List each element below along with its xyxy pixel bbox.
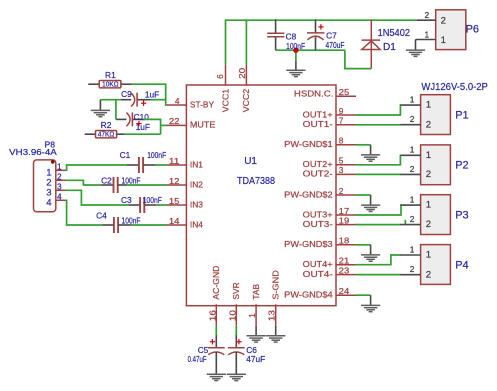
svg-text:C3: C3 [121, 195, 132, 205]
wire pin10 to C6 [235, 326, 237, 336]
svg-text:47KΩ: 47KΩ [98, 130, 115, 139]
ground at P6 pin1 [406, 50, 425, 56]
capacitor C10 (polarized) [116, 118, 126, 120]
P4 pin 2 stub [400, 274, 420, 276]
wire R1 to pin 4 [132, 84, 167, 105]
svg-text:OUT2-: OUT2- [303, 169, 333, 179]
svg-text:19: 19 [339, 215, 350, 225]
svg-text:1: 1 [426, 150, 431, 161]
svg-text:VCC2: VCC2 [241, 88, 251, 112]
U1 pin 16 AC-GND stub [215, 304, 217, 325]
wire P8.4 to C4 [66, 200, 103, 225]
svg-text:2: 2 [426, 269, 431, 280]
svg-text:IN4: IN4 [190, 219, 203, 229]
svg-text:4: 4 [175, 96, 180, 106]
ground stem pin2 [370, 195, 372, 205]
svg-text:100nF: 100nF [143, 195, 162, 205]
svg-text:1uF: 1uF [145, 90, 159, 100]
svg-text:3: 3 [57, 182, 62, 192]
ground at PW-GND$4 [361, 305, 380, 311]
U1 pin 15 IN3 stub [166, 204, 187, 206]
ground under C6 [227, 374, 246, 380]
P8 pin 3 stub [56, 189, 66, 191]
U1 pin 13 S-GND stub [275, 304, 277, 325]
wire to pin 22 [161, 124, 167, 126]
svg-text:14: 14 [169, 216, 180, 226]
svg-text:OUT3-: OUT3- [303, 219, 333, 229]
svg-text:13: 13 [267, 310, 277, 321]
svg-text:2: 2 [410, 164, 415, 174]
P1 pin 1 stub [400, 104, 420, 106]
C5 plus mark [210, 339, 215, 344]
svg-text:PW-GND$1: PW-GND$1 [284, 139, 333, 149]
svg-text:2: 2 [426, 169, 431, 180]
svg-text:2: 2 [441, 15, 446, 26]
wire down jog [344, 50, 346, 68]
U1 pin 25 HSDN.C. stub [336, 95, 356, 97]
U1 pin 7 OUT1- stub [336, 124, 356, 126]
svg-text:C8: C8 [286, 32, 297, 42]
svg-text:2: 2 [425, 10, 430, 20]
P6 pin 1 stub [416, 39, 436, 41]
U1 pin 4 ST-BY stub [166, 104, 187, 106]
svg-text:100nF: 100nF [286, 41, 305, 51]
svg-text:15: 15 [169, 196, 180, 206]
svg-text:2: 2 [426, 219, 431, 230]
P8 pin 1 stub [56, 169, 66, 171]
wire riser C10/R2 [160, 119, 162, 135]
wire to D1 anode [344, 68, 371, 70]
svg-text:22: 22 [169, 116, 180, 126]
ground at PW-GND$3 [361, 255, 380, 261]
svg-text:OUT1+: OUT1+ [303, 109, 333, 119]
svg-text:AC-GND: AC-GND [211, 266, 221, 300]
svg-text:2: 2 [410, 264, 415, 274]
ground near C9 [91, 110, 110, 116]
wire C4 to pin 14 [132, 224, 167, 226]
svg-text:1: 1 [57, 162, 62, 172]
svg-text:IN1: IN1 [190, 159, 203, 169]
U1 pin 14 IN4 stub [166, 224, 187, 226]
svg-text:1: 1 [426, 200, 431, 211]
P6 ground stem [415, 40, 417, 51]
svg-text:P1: P1 [455, 110, 468, 122]
capacitor C9 (polarized) [120, 99, 131, 101]
svg-text:OUT2+: OUT2+ [303, 159, 333, 169]
svg-text:2: 2 [410, 114, 415, 124]
U1 pin 21 OUT4+ stub [336, 264, 356, 266]
connector P4 [421, 245, 451, 285]
svg-text:1N5402: 1N5402 [378, 28, 411, 39]
ground at PW-GND$2 [361, 205, 380, 211]
P2 pin 1 stub [400, 154, 420, 156]
wire C9 to ST-BY riser [151, 99, 167, 101]
wire pin20 riser [245, 19, 247, 64]
svg-text:OUT4+: OUT4+ [303, 259, 333, 269]
wire pin19 to P3.2 [355, 224, 401, 226]
capacitor C5 (polarized) [215, 335, 217, 348]
ground stem pin24 [370, 295, 372, 305]
wire pin24 to ground [355, 294, 370, 296]
op-amp U1 TDA7388 IC body [186, 85, 336, 306]
svg-text:100nF: 100nF [122, 215, 141, 225]
svg-text:1: 1 [426, 100, 431, 111]
svg-text:12: 12 [169, 176, 180, 186]
wire P8.3 to C3 [66, 190, 129, 205]
svg-text:OUT3+: OUT3+ [303, 209, 333, 219]
C9 plus mark [141, 101, 146, 106]
svg-text:P2: P2 [455, 160, 468, 172]
wire tick at P3.2 [404, 220, 406, 225]
U1 pin 9 OUT1+ stub [336, 114, 356, 116]
wire pin18 to ground [355, 244, 370, 246]
resistor R1 10K [88, 83, 99, 85]
svg-text:23: 23 [339, 265, 350, 275]
P3 pin 1 stub [400, 204, 420, 206]
capacitor C4 100nF [102, 224, 114, 226]
connector P2 [421, 145, 451, 185]
capacitor C6 (polarized) [235, 335, 237, 348]
P8 pin 4 stub [56, 199, 66, 201]
svg-text:VH3.96-4A: VH3.96-4A [9, 147, 57, 157]
P4 pin 1 stub [400, 254, 420, 256]
wire pin9 to P1.1 [355, 105, 401, 115]
junction dot [293, 48, 298, 53]
wire C2 to pin 12 [127, 184, 166, 186]
svg-text:SVR: SVR [231, 282, 241, 299]
wire pin6 riser [225, 19, 227, 64]
C6 plus mark [236, 339, 241, 344]
ground stem S-GND [275, 326, 277, 336]
U1 pin 20 VCC2 stub [245, 65, 247, 86]
svg-text:P6: P6 [466, 24, 479, 36]
U1 pin 11 IN1 stub [166, 164, 187, 166]
diode D1 1N5402 [370, 19, 372, 68]
svg-text:20: 20 [237, 68, 247, 79]
svg-text:8: 8 [339, 136, 344, 146]
wire pin8 to ground [355, 144, 370, 146]
svg-text:U1: U1 [244, 156, 257, 167]
resistor R2 47K [85, 133, 96, 135]
svg-text:WJ126V-5.0-2P: WJ126V-5.0-2P [421, 82, 488, 93]
svg-text:C10: C10 [134, 112, 150, 122]
svg-text:10: 10 [227, 310, 237, 321]
svg-text:C9: C9 [121, 89, 132, 99]
wire P8.2 to C2 [66, 180, 102, 185]
svg-text:R1: R1 [105, 70, 116, 80]
svg-text:IN3: IN3 [190, 199, 203, 209]
svg-text:1: 1 [426, 250, 431, 261]
connector P6 [436, 10, 466, 50]
svg-text:MUTE: MUTE [190, 120, 216, 130]
U1 pin 18 PW-GND$3 stub [336, 244, 356, 246]
svg-text:2: 2 [57, 172, 62, 182]
U1 pin 23 OUT4- stub [336, 274, 356, 276]
svg-text:HSDN.C.: HSDN.C. [294, 88, 334, 98]
connector P3 [421, 195, 451, 235]
U1 pin 22 MUTE stub [166, 124, 187, 126]
svg-text:PW-GND$3: PW-GND$3 [284, 239, 333, 249]
wire C1 to pin 11 [156, 164, 167, 166]
capacitor C7 (polarized) [315, 19, 317, 33]
wire pin17 to P3.1 [355, 205, 401, 215]
U1 pin 6 VCC1 stub [225, 65, 227, 86]
connector P1 [421, 95, 451, 135]
C7 plus mark [318, 24, 323, 29]
svg-text:PW-GND$2: PW-GND$2 [284, 189, 333, 199]
svg-text:ST-BY: ST-BY [190, 99, 215, 109]
wire VCC rail [226, 19, 417, 21]
svg-text:1: 1 [425, 29, 430, 39]
svg-text:1: 1 [410, 95, 415, 105]
svg-text:VCC1: VCC1 [220, 88, 230, 112]
svg-text:3: 3 [339, 165, 344, 175]
svg-text:1: 1 [410, 145, 415, 155]
svg-text:24: 24 [339, 286, 350, 296]
svg-text:TAB: TAB [251, 284, 261, 300]
svg-text:TDA7388: TDA7388 [237, 175, 275, 187]
C10 plus mark [136, 121, 141, 126]
P6 pin 2 stub [417, 19, 436, 21]
U1 pin 24 PW-GND$4 stub [336, 294, 356, 296]
U1 pin 2 PW-GND$2 stub [336, 194, 356, 196]
wire R2 to riser [125, 133, 161, 135]
wire ground to C9 [100, 99, 120, 101]
svg-text:S-GND: S-GND [271, 270, 281, 300]
ground under C5 [207, 374, 226, 380]
svg-text:2: 2 [339, 186, 344, 196]
capacitor C2 100nF [101, 184, 113, 186]
P2 pin 2 stub [400, 173, 420, 175]
svg-text:7: 7 [339, 116, 344, 126]
svg-text:6: 6 [215, 74, 225, 79]
svg-text:21: 21 [339, 256, 350, 266]
svg-text:470uF: 470uF [326, 40, 345, 50]
ground at PW-GND$1 [361, 155, 380, 161]
wire C10 to riser [143, 118, 161, 120]
wire pin16 to C5 [215, 326, 217, 336]
svg-text:2: 2 [410, 214, 415, 224]
P8 pin 2 stub [56, 179, 66, 181]
U1 pin 10 SVR stub [235, 304, 237, 325]
svg-text:2: 2 [426, 119, 431, 130]
svg-text:C7: C7 [326, 30, 337, 40]
connector P8 VH3.96-4A [34, 160, 56, 212]
wire pin5 to P2.1 [355, 155, 401, 165]
svg-text:17: 17 [339, 206, 350, 216]
ground stem pin8 [370, 145, 372, 155]
U1 pin 3 OUT2- stub [336, 173, 356, 175]
svg-text:18: 18 [339, 236, 350, 246]
capacitor C3 100nF [128, 204, 140, 206]
ground stem under rail [295, 61, 297, 70]
wire pin2 to ground [355, 194, 370, 196]
svg-text:OUT4-: OUT4- [303, 269, 333, 279]
P8 pin1 marker dot [51, 160, 55, 164]
svg-text:4: 4 [57, 192, 62, 202]
ground stem left [99, 100, 101, 111]
svg-text:47uF: 47uF [246, 354, 265, 364]
U1 pin 19 OUT3- stub [336, 224, 356, 226]
svg-text:D1: D1 [383, 42, 396, 53]
capacitor C8 [275, 19, 277, 33]
svg-text:16: 16 [207, 310, 217, 321]
svg-text:P4: P4 [455, 259, 468, 271]
svg-text:OUT1-: OUT1- [303, 119, 333, 129]
svg-text:100nF: 100nF [147, 150, 166, 160]
svg-text:C1: C1 [120, 150, 131, 160]
wire C3 to pin 15 [157, 204, 167, 206]
svg-text:1: 1 [441, 35, 446, 46]
wire junction to ground [295, 50, 297, 61]
wire corner to C10 [115, 118, 118, 120]
svg-text:1: 1 [410, 195, 415, 205]
U1 pin 12 IN2 stub [166, 184, 187, 186]
U1 pin 17 OUT3+ stub [336, 214, 356, 216]
P3 pin 2 stub [400, 224, 420, 226]
wire pin7 to P1.2 [355, 124, 401, 126]
svg-text:4: 4 [46, 198, 52, 209]
U1 pin 1 TAB stub [255, 304, 257, 325]
svg-text:1: 1 [247, 313, 257, 318]
svg-text:9: 9 [339, 106, 344, 116]
wire branch down to C10 [115, 100, 117, 120]
svg-text:C4: C4 [96, 210, 107, 220]
U1 pin 5 OUT2+ stub [336, 164, 356, 166]
wire pin3 to P2.2 [355, 173, 401, 175]
wire P8.1 to C1 [66, 165, 127, 170]
P1 pin 2 stub [400, 124, 420, 126]
ground at TAB [247, 336, 266, 342]
svg-text:C2: C2 [101, 175, 112, 185]
svg-text:1: 1 [410, 244, 415, 254]
svg-text:IN2: IN2 [190, 179, 203, 189]
capacitor C1 100nF [127, 164, 139, 166]
svg-text:5: 5 [339, 156, 344, 166]
U1 pin 8 PW-GND$1 stub [336, 144, 356, 146]
svg-text:100nF: 100nF [122, 175, 141, 185]
ground stem TAB [255, 326, 257, 336]
svg-text:0.47uF: 0.47uF [188, 354, 207, 364]
svg-text:25: 25 [339, 87, 350, 97]
ground at S-GND [266, 336, 285, 342]
wire pin21 to P4.1 [355, 255, 401, 265]
svg-text:1uF: 1uF [136, 122, 150, 132]
svg-text:10KΩ: 10KΩ [102, 80, 119, 89]
svg-text:PW-GND$4: PW-GND$4 [284, 290, 333, 300]
wire pin23 to P4.2 [355, 274, 401, 276]
svg-text:P3: P3 [455, 210, 468, 222]
wire C8/C7 bottom to D1 [276, 49, 345, 51]
ground under C8/C7 [286, 70, 305, 76]
svg-text:11: 11 [169, 156, 180, 166]
ground stem pin18 [370, 245, 372, 255]
